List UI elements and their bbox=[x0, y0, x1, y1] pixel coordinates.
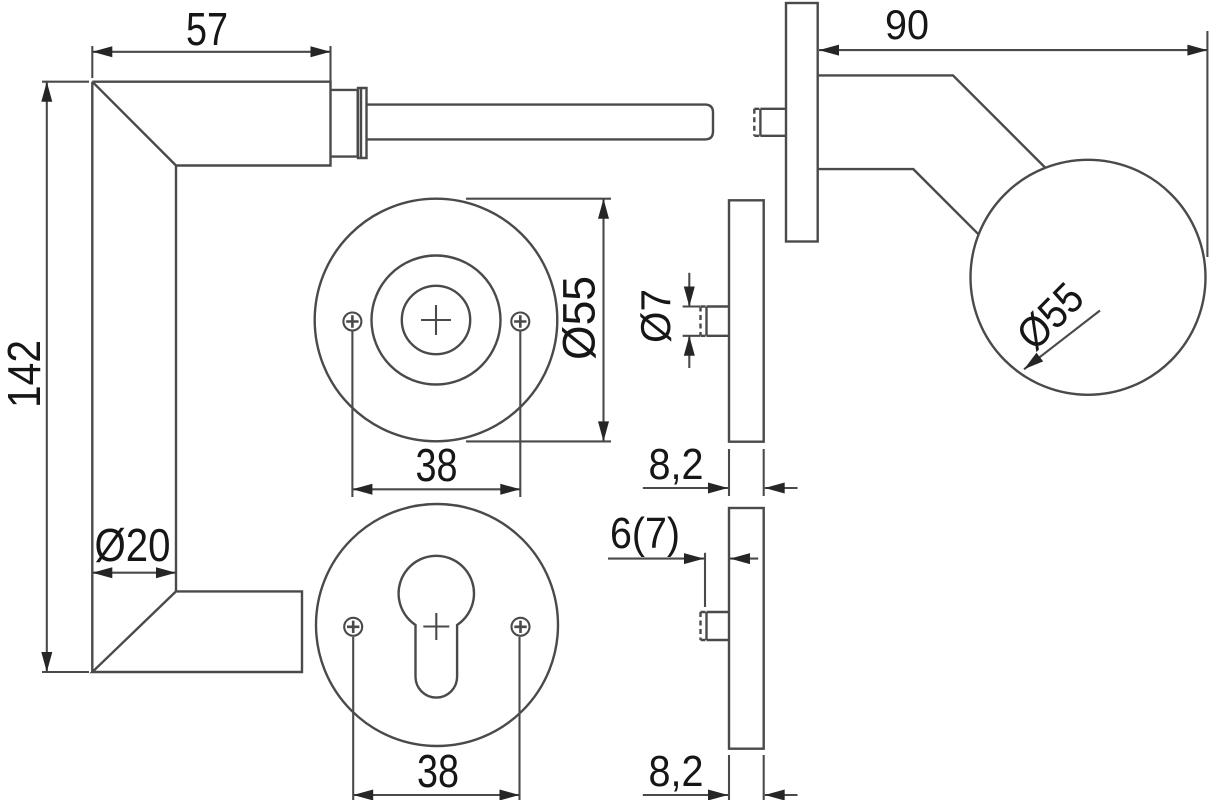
dimension Ø7 bbox=[632, 273, 700, 368]
bottom thin plate side view bbox=[729, 508, 764, 749]
bottom rosette right screw bbox=[512, 618, 530, 636]
svg-text:57: 57 bbox=[186, 3, 228, 55]
dimension Ø55 top rosette bbox=[466, 199, 611, 442]
spindle rod bbox=[367, 105, 714, 140]
top rosette outer circle bbox=[315, 199, 558, 442]
top rosette inner circle bbox=[402, 286, 470, 354]
top plate pin bbox=[701, 307, 730, 336]
svg-text:90: 90 bbox=[885, 1, 929, 48]
svg-text:8,2: 8,2 bbox=[649, 747, 704, 796]
knob rosette plate side view bbox=[786, 3, 818, 242]
bottom rosette outer circle bbox=[316, 504, 558, 746]
dimension 8,2 top bbox=[643, 440, 798, 496]
svg-text:38: 38 bbox=[417, 745, 459, 797]
top rosette center cross bbox=[421, 305, 451, 335]
svg-text:38: 38 bbox=[416, 439, 458, 491]
top rosette right screw bbox=[511, 313, 529, 331]
svg-text:8,2: 8,2 bbox=[649, 440, 704, 489]
handle collar bbox=[331, 90, 358, 157]
svg-text:142: 142 bbox=[0, 340, 50, 408]
dimension 38 bottom rosette bbox=[353, 637, 519, 800]
bottom rosette left screw bbox=[344, 618, 362, 636]
dimension 90 bbox=[819, 1, 1207, 257]
lever handle outline bbox=[92, 82, 330, 672]
knob neck bbox=[818, 75, 1045, 234]
top rosette middle circle bbox=[372, 256, 501, 385]
dimension 142 bbox=[0, 82, 89, 672]
dimension 38 top rosette bbox=[352, 331, 520, 497]
handle flange bbox=[358, 88, 367, 158]
dimension 8,2 bottom bbox=[643, 747, 798, 800]
knob Ø55 label with leader bbox=[1008, 274, 1100, 369]
dimension 57 bbox=[92, 3, 330, 86]
svg-text:Ø55: Ø55 bbox=[554, 276, 605, 360]
top thin plate side view bbox=[729, 200, 764, 441]
top rosette left screw bbox=[343, 313, 361, 331]
bottom plate pin bbox=[701, 612, 730, 640]
euro profile cylinder hole bbox=[399, 556, 474, 698]
bottom rosette center cross bbox=[423, 613, 449, 640]
svg-text:6(7): 6(7) bbox=[610, 509, 680, 558]
dimension 6(7) bbox=[608, 509, 758, 607]
svg-text:Ø7: Ø7 bbox=[632, 289, 679, 343]
knob sphere bbox=[971, 160, 1206, 395]
knob plate pin bbox=[754, 109, 786, 136]
dimension Ø20 bbox=[92, 519, 176, 573]
svg-text:Ø20: Ø20 bbox=[95, 519, 171, 571]
svg-text:Ø55: Ø55 bbox=[1008, 274, 1094, 360]
